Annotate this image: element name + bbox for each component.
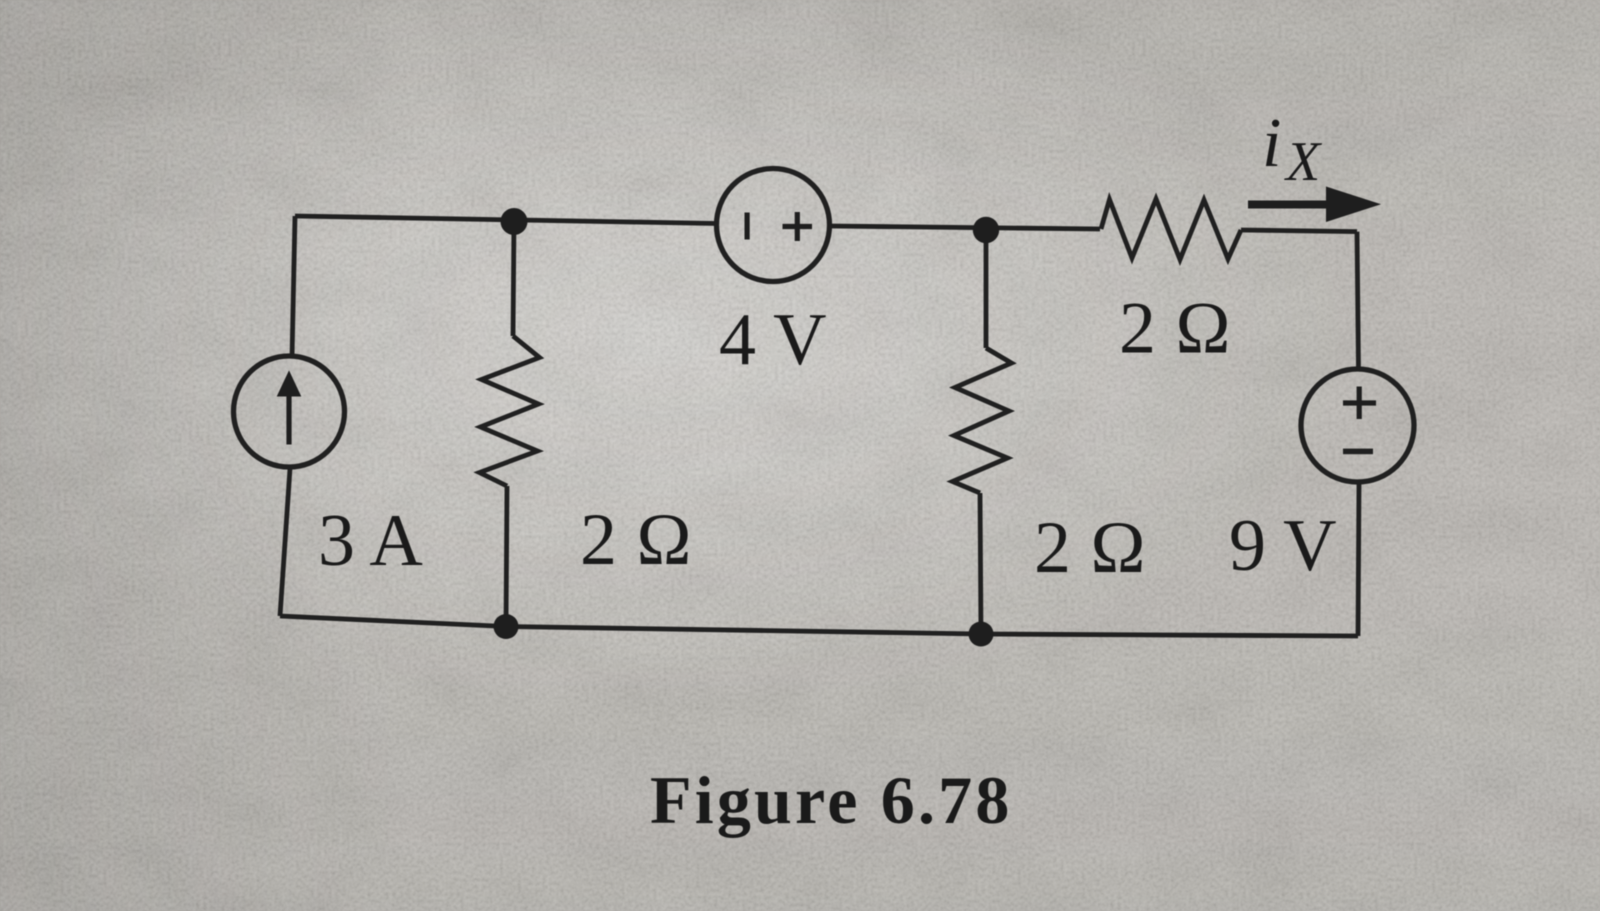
wire top-left horizontal (295, 216, 716, 224)
resistor R2 2-ohm vertical middle zigzag (953, 348, 1012, 493)
wire top middle (4V right to junction B and resistor lead) (830, 226, 1100, 229)
svg-text:i: i (1262, 105, 1281, 182)
wire left side lower (280, 469, 290, 617)
wire right side upper (corner down to 9V top) (1357, 232, 1359, 370)
current source I1 3A circle (234, 356, 345, 467)
V1 minus terminal bar (745, 213, 750, 240)
wire R1 to bottom node (506, 486, 507, 627)
current ix arrow (1248, 187, 1381, 223)
wire right side lower (9V bottom to corner) (1358, 482, 1359, 636)
svg-text:9 V: 9 V (1229, 505, 1337, 587)
svg-text:2 Ω: 2 Ω (1119, 288, 1231, 370)
svg-text:3 A: 3 A (318, 500, 423, 582)
wire bottom (280, 616, 1358, 636)
voltage source V2 9V circle (1301, 369, 1414, 482)
svg-text:X: X (1284, 131, 1323, 193)
svg-text:Figure 6.78: Figure 6.78 (650, 762, 1013, 838)
svg-text:4 V: 4 V (719, 299, 827, 381)
wire top right lead to corner (1241, 230, 1357, 232)
wire node A to resistor R1 (513, 221, 514, 336)
svg-text:2 Ω: 2 Ω (1034, 507, 1146, 589)
V1 plus sign (783, 212, 813, 241)
V2 plus sign (1343, 387, 1376, 420)
node C junction dot bottom-left (494, 614, 519, 639)
node D junction dot bottom-middle (969, 622, 994, 647)
resistor R1 2-ohm vertical left zigzag (480, 336, 540, 486)
node A junction dot top-left (501, 208, 528, 235)
node B junction dot top-middle (973, 217, 999, 243)
wire R2 to bottom node (980, 493, 981, 634)
wire left side upper (292, 216, 295, 358)
wire node B to resistor R2 (984, 230, 989, 348)
current source I1 arrow (278, 372, 301, 445)
voltage source V1 4V circle (717, 169, 830, 282)
V2 minus sign (1343, 449, 1373, 455)
resistor R3 2-ohm horizontal zigzag (1101, 199, 1241, 260)
svg-text:2 Ω: 2 Ω (580, 499, 692, 581)
